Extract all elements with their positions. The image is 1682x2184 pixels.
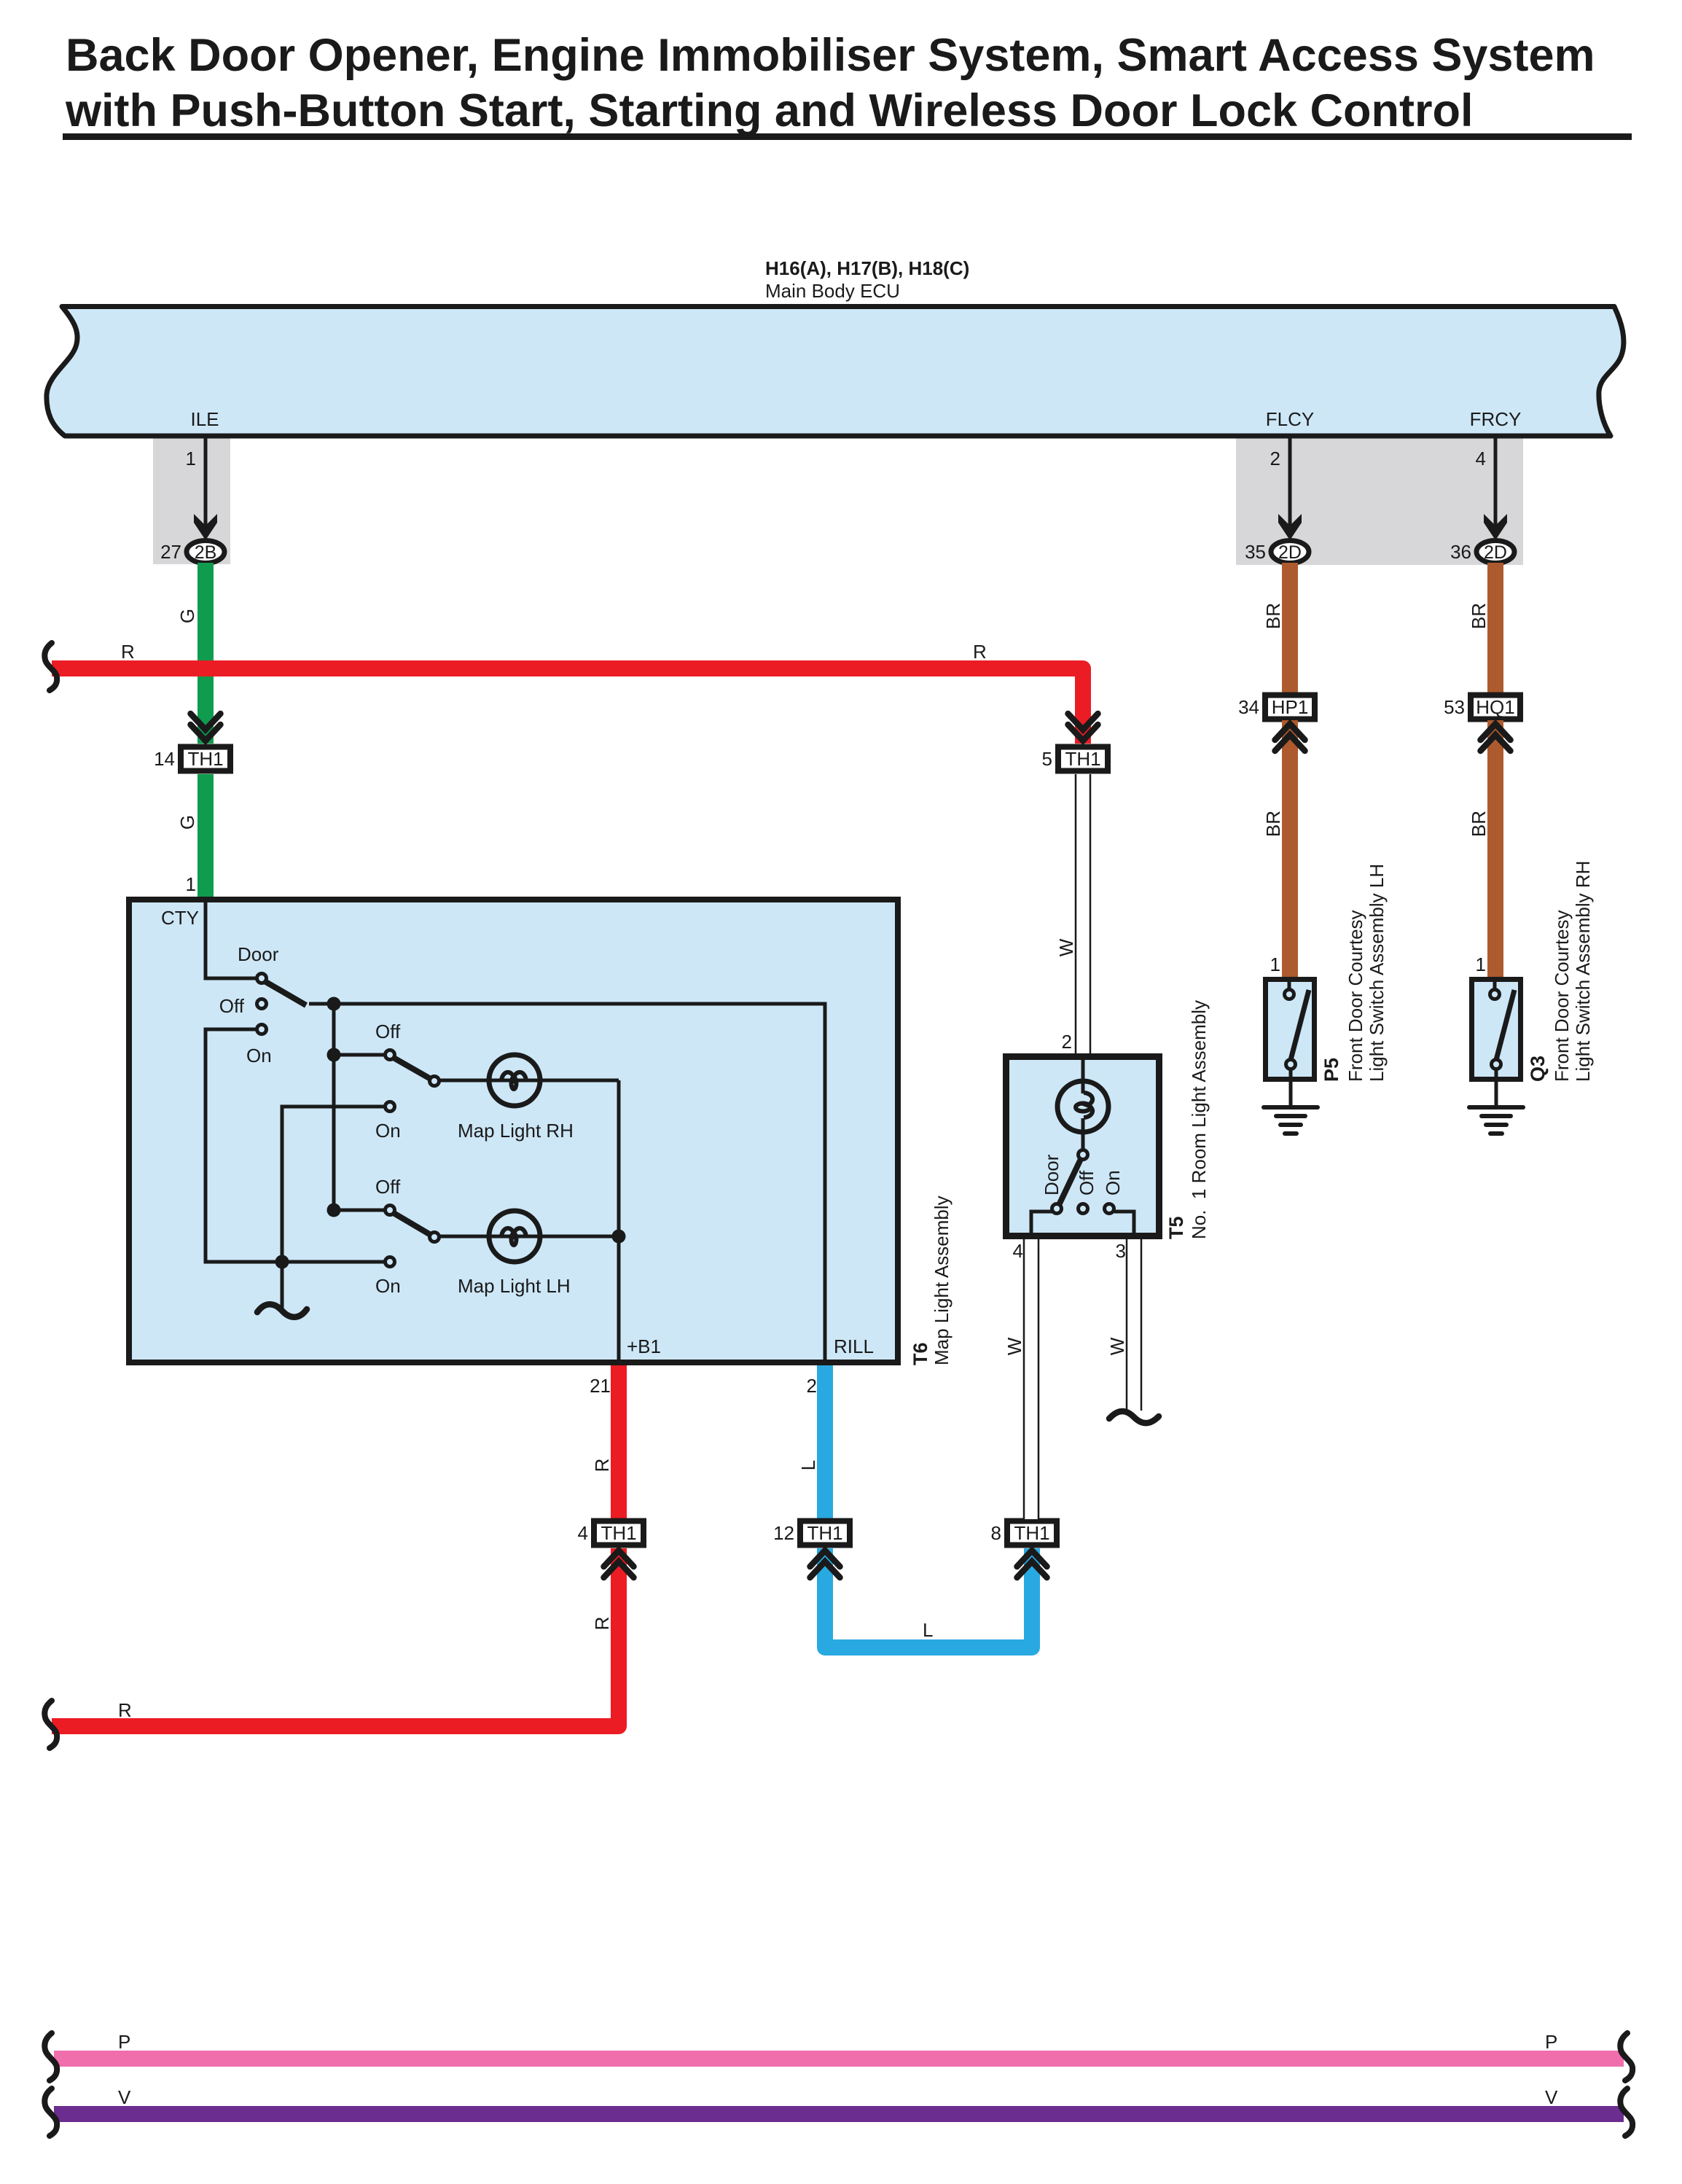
door switch on contact <box>257 1025 267 1034</box>
LH switch on contact <box>386 1257 395 1267</box>
svg-text:36: 36 <box>1450 541 1471 563</box>
door switch pivot contact <box>257 974 267 983</box>
wire-break squiggle at R left end <box>44 643 57 690</box>
connector 34 HP1 <box>1238 695 1315 719</box>
LH switch lever <box>394 1213 434 1237</box>
svg-text:No. 1 Room Light Assembly: No. 1 Room Light Assembly <box>1188 1000 1210 1239</box>
chevron arrow out of 12 TH1 <box>810 1551 840 1577</box>
arrow into connector 2D left <box>1278 514 1302 540</box>
svg-text:Off: Off <box>375 1021 401 1042</box>
svg-text:+B1: +B1 <box>627 1335 661 1357</box>
Map Light RH bulb <box>489 1055 540 1106</box>
T5 on contact <box>1105 1204 1114 1214</box>
svg-text:TH1: TH1 <box>1065 748 1100 770</box>
svg-text:Back Door Opener, Engine Immob: Back Door Opener, Engine Immobiliser Sys… <box>66 30 1595 81</box>
svg-text:RILL: RILL <box>834 1335 874 1357</box>
Q3 wire to ground <box>1495 1069 1498 1084</box>
svg-text:V: V <box>1545 2086 1558 2108</box>
connector 12 TH1 <box>773 1521 850 1545</box>
connector 5 TH1 <box>1042 747 1108 771</box>
door switch off contact <box>257 999 267 1009</box>
T5 door contact <box>1052 1204 1062 1214</box>
Q3 Front Door Courtesy Light Switch Assembly RH box <box>1472 980 1521 1080</box>
ground squiggle (body ground wave) <box>257 1304 307 1317</box>
P5 switch bottom contact <box>1286 1060 1296 1069</box>
P5 pin stub <box>1288 980 1291 990</box>
wire BR from 2D to 34 HP1 <box>1282 563 1298 693</box>
svg-text:2: 2 <box>1270 448 1280 469</box>
svg-text:P5: P5 <box>1321 1058 1342 1082</box>
svg-text:1: 1 <box>186 873 196 895</box>
svg-text:2: 2 <box>1062 1031 1072 1053</box>
Q3 switch top contact <box>1490 990 1500 999</box>
LH switch off contact <box>386 1206 395 1215</box>
arrow into connector 2D right <box>1484 514 1507 540</box>
svg-text:Map Light Assembly: Map Light Assembly <box>931 1196 953 1365</box>
wire BR from 2D to 53 HQ1 <box>1487 563 1503 693</box>
svg-text:L: L <box>797 1460 819 1470</box>
T6 Map Light Assembly box <box>129 900 898 1362</box>
svg-text:4: 4 <box>578 1522 588 1544</box>
arrow into connector 2B <box>194 514 217 540</box>
T5 No.1 Room Light Assembly box <box>1006 1057 1159 1236</box>
P5 wire to ground <box>1289 1069 1293 1084</box>
wire G from 2B to 14 TH1 <box>197 563 214 744</box>
svg-text:TH1: TH1 <box>807 1522 842 1544</box>
connector 53 HQ1 <box>1444 695 1520 719</box>
junction dot LH pivot <box>327 1204 341 1217</box>
connector 27 2B <box>160 541 224 563</box>
svg-text:21: 21 <box>590 1375 611 1397</box>
svg-text:R: R <box>973 641 987 663</box>
svg-text:G: G <box>176 815 198 830</box>
T5 off contact <box>1079 1204 1088 1214</box>
chevron arrow into 8 TH1 <box>1017 1551 1047 1577</box>
wire junction to RH off contact <box>334 1053 385 1057</box>
wire pin2 to bulb <box>1081 1057 1085 1093</box>
wire W from T5 pin 3 (unterminated) <box>1127 1239 1141 1411</box>
T5 switch lever <box>1059 1159 1081 1205</box>
svg-text:2: 2 <box>807 1375 817 1397</box>
svg-text:4: 4 <box>1013 1240 1023 1262</box>
wire P (pink bus) <box>54 2051 1624 2067</box>
RH switch lever end contact <box>430 1077 439 1086</box>
wire L from 12 TH1 to 8 TH1 <box>825 1548 1032 1647</box>
connector shade box (ECU pin ILE) <box>153 438 230 564</box>
svg-text:TH1: TH1 <box>601 1522 636 1544</box>
RH switch off contact <box>386 1050 395 1060</box>
svg-text:L: L <box>923 1619 933 1641</box>
chevron arrow out of 34 HP1 <box>1275 724 1305 751</box>
T6 internal wiring <box>206 902 825 1360</box>
connector shade box (ECU pins FLCY/FRCY) <box>1236 438 1523 565</box>
svg-text:14: 14 <box>154 748 175 770</box>
svg-text:BR: BR <box>1468 811 1490 837</box>
svg-text:53: 53 <box>1444 696 1465 718</box>
wire on contact to pin 3 <box>1114 1212 1134 1236</box>
Q3 switch bottom contact <box>1492 1060 1501 1069</box>
pin 4 stub wire (FRCY) <box>1494 438 1498 526</box>
svg-text:Front Door Courtesy: Front Door Courtesy <box>1345 910 1366 1082</box>
wire door switch output to junction <box>309 1002 334 1006</box>
svg-text:W: W <box>1055 938 1077 956</box>
wire door-on contact branch <box>206 1029 282 1262</box>
svg-text:4: 4 <box>1476 448 1486 469</box>
svg-text:Map Light RH: Map Light RH <box>458 1120 574 1142</box>
pin 1 stub wire (ILE) <box>204 438 208 526</box>
RH switch on contact <box>386 1102 395 1112</box>
wire R from +B1 to 4 TH1 <box>611 1365 627 1519</box>
svg-text:Door: Door <box>1041 1154 1063 1196</box>
wire-break squiggle P right <box>1620 2033 1632 2080</box>
svg-text:HP1: HP1 <box>1272 696 1309 718</box>
svg-text:CTY: CTY <box>161 907 199 929</box>
wire +B1 vertical <box>617 1080 621 1360</box>
svg-text:Off: Off <box>1076 1170 1098 1196</box>
junction dot ground branch <box>275 1255 289 1269</box>
wire L from RILL to 12 TH1 <box>817 1365 833 1519</box>
wire W from T5 pin 4 to 8 TH1 <box>1024 1239 1038 1519</box>
wire RH switch to bulb to +B1 vertical <box>437 1079 619 1083</box>
junction dot door switch output <box>327 997 341 1011</box>
svg-text:FRCY: FRCY <box>1470 408 1522 430</box>
svg-text:R: R <box>121 641 135 663</box>
svg-text:34: 34 <box>1238 696 1259 718</box>
junction dot RH branch <box>327 1048 341 1062</box>
svg-text:G: G <box>176 609 198 623</box>
svg-text:R: R <box>591 1617 613 1631</box>
wire RH on contact branch <box>282 1107 385 1262</box>
svg-text:with Push-Button Start, Starti: with Push-Button Start, Starting and Wir… <box>65 85 1474 136</box>
svg-text:FLCY: FLCY <box>1266 408 1314 430</box>
svg-text:On: On <box>375 1120 401 1142</box>
wire-break wave at pin 3 wire end <box>1109 1411 1159 1423</box>
wire V (violet bus) <box>54 2106 1624 2122</box>
wire BR from 53 HQ1 to Q3 <box>1487 720 1503 980</box>
P5 switch top contact <box>1285 990 1294 999</box>
svg-text:2D: 2D <box>1484 542 1507 563</box>
svg-text:Light Switch Assembly LH: Light Switch Assembly LH <box>1366 864 1388 1082</box>
svg-text:R: R <box>118 1699 132 1721</box>
connector 14 TH1 <box>154 747 230 771</box>
P5 switch lever <box>1291 990 1309 1060</box>
svg-text:BR: BR <box>1468 603 1490 629</box>
wire LH on contact branch <box>282 1260 385 1264</box>
svg-text:BR: BR <box>1262 603 1284 629</box>
svg-text:12: 12 <box>773 1522 794 1544</box>
svg-text:HQ1: HQ1 <box>1476 696 1514 718</box>
wire LH switch to bulb junction <box>437 1235 619 1239</box>
svg-text:5: 5 <box>1042 748 1052 770</box>
Q3 pin stub <box>1493 980 1497 990</box>
title underline rule <box>63 133 1632 140</box>
chevron arrow out of 53 HQ1 <box>1481 724 1511 751</box>
title text <box>65 30 1595 136</box>
svg-text:Off: Off <box>375 1176 401 1198</box>
svg-text:35: 35 <box>1245 541 1266 563</box>
svg-text:Front Door Courtesy: Front Door Courtesy <box>1551 910 1573 1082</box>
svg-text:Map Light LH: Map Light LH <box>458 1275 571 1297</box>
pin 2 stub wire (FLCY) <box>1288 438 1292 526</box>
svg-text:P: P <box>118 2031 130 2053</box>
RH switch lever <box>394 1058 434 1081</box>
LH switch lever end contact <box>430 1233 439 1242</box>
svg-text:Door: Door <box>238 943 279 965</box>
svg-text:BR: BR <box>1262 811 1284 837</box>
junction dot LH bulb to +B1 <box>612 1230 626 1244</box>
svg-text:P: P <box>1545 2031 1557 2053</box>
svg-text:ILE: ILE <box>190 408 219 430</box>
svg-text:TH1: TH1 <box>187 748 223 770</box>
ground (P5) <box>1264 1083 1318 1134</box>
T5 internal wiring <box>1031 1057 1134 1236</box>
connector 4 TH1 <box>578 1521 644 1545</box>
wire main junction vertical <box>332 1004 336 1210</box>
svg-text:On: On <box>1102 1170 1124 1196</box>
ground (Q3) <box>1469 1083 1523 1134</box>
svg-text:3: 3 <box>1116 1240 1126 1262</box>
T5 switch pivot contact <box>1079 1150 1088 1160</box>
wire-break squiggle V right <box>1620 2089 1632 2136</box>
wire door contact to pin 4 <box>1031 1212 1055 1236</box>
T5 room light bulb <box>1057 1081 1108 1132</box>
wire R from 4 TH1 to bottom left <box>52 1548 619 1726</box>
P5 Front Door Courtesy Light Switch Assembly LH box <box>1266 980 1315 1080</box>
wire bulb to switch pivot <box>1081 1118 1085 1150</box>
chevron arrow into 14 TH1 <box>191 714 221 741</box>
wire W (white) from 5 TH1 to room light <box>1076 774 1090 1056</box>
svg-text:On: On <box>375 1275 401 1297</box>
wire G from 14 TH1 to map light assembly <box>197 774 214 898</box>
door switch lever <box>265 981 306 1005</box>
Q3 switch lever <box>1496 990 1514 1060</box>
wire-break squiggle at bottom R end <box>44 1701 57 1748</box>
chevron arrow out of 4 TH1 <box>604 1551 634 1577</box>
svg-text:1: 1 <box>1476 953 1486 975</box>
svg-text:Off: Off <box>219 995 245 1017</box>
wire LH off contact <box>334 1209 385 1212</box>
wire from CTY pin to door switch <box>206 902 257 978</box>
wire R horizontal top <box>52 668 1083 744</box>
svg-text:H16(A), H17(B), H18(C): H16(A), H17(B), H18(C) <box>765 257 969 279</box>
chevron arrow into 5 TH1 <box>1068 714 1098 741</box>
svg-text:8: 8 <box>991 1522 1001 1544</box>
svg-text:On: On <box>246 1045 272 1066</box>
svg-text:Light Switch Assembly RH: Light Switch Assembly RH <box>1572 861 1594 1082</box>
connector 36 2D <box>1450 541 1514 563</box>
wire-break squiggle V left <box>44 2089 57 2136</box>
svg-text:1: 1 <box>186 448 196 469</box>
svg-text:Main Body ECU: Main Body ECU <box>765 280 900 302</box>
svg-text:T6: T6 <box>910 1342 931 1365</box>
wire ground stub <box>281 1262 284 1308</box>
svg-text:27: 27 <box>160 541 181 563</box>
svg-text:R: R <box>591 1459 613 1473</box>
Main Body ECU block (band with torn wavy ends) <box>47 307 1624 437</box>
svg-text:2D: 2D <box>1278 542 1302 563</box>
svg-text:W: W <box>1106 1337 1128 1355</box>
svg-text:V: V <box>118 2086 131 2108</box>
connector 35 2D <box>1245 541 1309 563</box>
wire-break squiggle P left <box>44 2033 57 2080</box>
connector 8 TH1 <box>991 1521 1057 1545</box>
Map Light LH bulb <box>489 1211 540 1262</box>
svg-text:1: 1 <box>1270 953 1280 975</box>
svg-text:T5: T5 <box>1165 1216 1187 1239</box>
svg-text:2B: 2B <box>195 542 217 563</box>
svg-text:Q3: Q3 <box>1527 1056 1549 1082</box>
wire junction to RILL pin <box>334 1004 825 1360</box>
svg-text:W: W <box>1004 1337 1025 1355</box>
svg-text:TH1: TH1 <box>1014 1522 1049 1544</box>
wire BR from 34 HP1 to P5 <box>1282 720 1298 980</box>
